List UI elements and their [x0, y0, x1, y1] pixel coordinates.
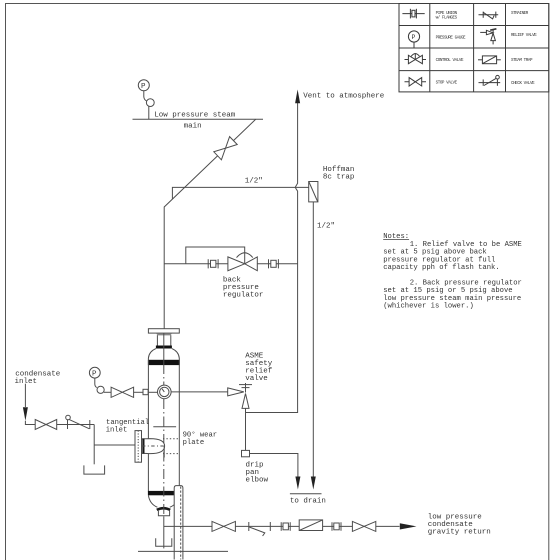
svg-text:P: P: [92, 370, 97, 378]
svg-text:w/ FLANGES: w/ FLANGES: [436, 16, 458, 21]
svg-text:plate: plate: [183, 439, 205, 447]
svg-text:CHECK VALVE: CHECK VALVE: [511, 82, 535, 86]
svg-text:STOP VALVE: STOP VALVE: [436, 82, 458, 86]
svg-text:STRAINER: STRAINER: [511, 12, 529, 16]
svg-text:Vent to atmosphere: Vent to atmosphere: [303, 93, 384, 101]
svg-text:inlet: inlet: [15, 378, 38, 386]
svg-text:elbow: elbow: [246, 477, 269, 485]
svg-text:1/2": 1/2": [317, 223, 335, 231]
svg-text:capacity pph of flash tank.: capacity pph of flash tank.: [383, 264, 499, 272]
svg-text:STEAM TRAP: STEAM TRAP: [511, 59, 533, 63]
svg-text:Notes:: Notes:: [383, 233, 409, 241]
svg-text:Low pressure steam: Low pressure steam: [154, 111, 236, 119]
svg-text:to drain: to drain: [290, 498, 326, 506]
svg-text:main: main: [184, 123, 202, 131]
svg-text:P: P: [412, 34, 416, 41]
svg-text:8c trap: 8c trap: [323, 173, 355, 181]
svg-text:1/2": 1/2": [245, 178, 263, 186]
svg-text:P: P: [141, 83, 146, 91]
svg-text:PRESSURE GAUGE: PRESSURE GAUGE: [436, 36, 466, 40]
svg-text:regulator: regulator: [223, 292, 264, 300]
svg-text:valve: valve: [245, 375, 268, 383]
svg-text:(whichever is lower.): (whichever is lower.): [383, 303, 474, 311]
svg-text:gravity return: gravity return: [428, 529, 491, 537]
svg-text:PIPE UNION: PIPE UNION: [436, 12, 458, 16]
svg-text:CONTROL VALVE: CONTROL VALVE: [436, 59, 464, 63]
svg-text:RELIEF VALVE: RELIEF VALVE: [511, 34, 537, 38]
svg-text:inlet: inlet: [106, 427, 128, 435]
